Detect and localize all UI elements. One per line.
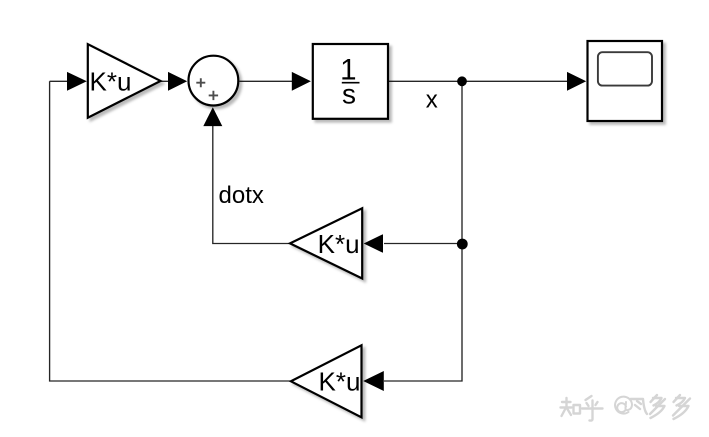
svg-text:dotx: dotx [219, 182, 264, 209]
svg-text:x: x [426, 87, 438, 114]
svg-text:K*u: K*u [318, 229, 360, 259]
svg-text:s: s [342, 79, 356, 110]
svg-text:K*u: K*u [319, 366, 361, 396]
svg-text:K*u: K*u [90, 67, 132, 97]
